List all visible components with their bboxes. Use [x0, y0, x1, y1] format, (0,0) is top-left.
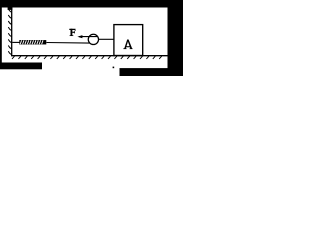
label A [123, 40, 132, 50]
ring [88, 34, 98, 44]
background [0, 0, 183, 76]
block A outline [114, 25, 143, 56]
scan border right bar [168, 0, 184, 76]
scan border bottom-right blob [120, 68, 184, 76]
spring anchor wire [12, 41, 19, 43]
ground hatching [12, 56, 162, 59]
scan border left line [0, 0, 2, 64]
force F wire through ring [79, 36, 98, 38]
ground line [11, 55, 168, 57]
label F [69, 29, 75, 36]
force F arrowhead [77, 35, 82, 38]
wire ring to block [99, 38, 115, 40]
wall hatching [8, 9, 11, 55]
scan border top bar [0, 0, 183, 8]
spring coil [19, 40, 46, 44]
wire spring to ring [46, 42, 89, 45]
wall line [11, 8, 13, 57]
scan border bottom-left bar [0, 63, 42, 70]
scan speck [113, 67, 115, 69]
wall top anchor blob [8, 8, 13, 10]
